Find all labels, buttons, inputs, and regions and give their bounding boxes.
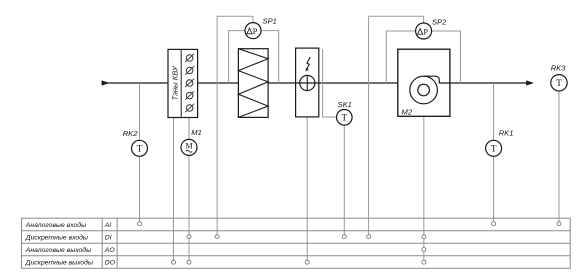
wire: SP2 signal line to DI — [368, 16, 370, 237]
wire: SK1 signal line to DI — [343, 117, 345, 236]
wire: fan M2 signal line to DI AO DO — [423, 116, 425, 262]
sensor RK2 circle — [132, 140, 148, 156]
sensor RK3 circle — [551, 75, 567, 91]
wire: SP1 left pressure tap — [229, 31, 246, 83]
heater block E1 divider — [180, 49, 182, 117]
svg-text:Дискретные выходы: Дискретные выходы — [25, 259, 93, 267]
right flow arrow — [526, 80, 534, 85]
node: RK1 to AI — [492, 222, 496, 226]
wire: SP2 drop to circle — [423, 16, 425, 23]
svg-text:SP2: SP2 — [432, 17, 447, 26]
wire: SP1 right pressure tap — [260, 31, 279, 83]
wire: supply duct main line segment 2 — [268, 82, 398, 84]
wire: SP2 right pressure tap — [431, 31, 461, 83]
svg-text:P: P — [253, 27, 258, 36]
fan M2 scroll tangent outlet — [424, 76, 450, 83]
wire: SP1 signal line to DI — [216, 16, 218, 237]
wire: RK3 sensor drop to AI — [558, 83, 560, 224]
sensor RK1 circle — [486, 140, 502, 156]
svg-text:T: T — [137, 145, 143, 155]
node: M2 to DO — [422, 260, 426, 264]
svg-text:M2: M2 — [402, 107, 413, 116]
svg-text:DO: DO — [105, 260, 116, 267]
node: M1 to DO — [187, 260, 191, 264]
svg-text:RK3: RK3 — [551, 63, 567, 72]
node: heater E1 to DO — [172, 260, 176, 264]
wire: SP1 drop to circle — [252, 16, 254, 23]
thermostat SK1 circle — [337, 110, 353, 126]
heating element symbol 4 — [185, 91, 194, 99]
wire: supply duct main line segment 1 — [102, 82, 238, 84]
svg-text:RK2: RK2 — [123, 129, 139, 138]
electric heater E2 body — [296, 48, 319, 117]
filter F1 zigzag — [238, 49, 268, 118]
svg-text:AO: AO — [104, 247, 116, 254]
heating element symbol 2 — [185, 66, 194, 74]
node: M2 to DI — [422, 235, 426, 239]
heating element symbol 1 — [185, 54, 194, 62]
svg-text:T: T — [491, 145, 497, 155]
fan M2 hub inner circle — [418, 84, 430, 96]
svg-text:RK1: RK1 — [499, 128, 514, 137]
filter F1 body — [238, 49, 268, 118]
left flow arrow — [102, 80, 110, 85]
svg-text:AI: AI — [104, 222, 112, 229]
node: RK2 to AI — [138, 222, 142, 226]
wire: SP2 top run — [369, 15, 424, 17]
heating element symbol 5 — [185, 104, 194, 112]
heating element symbol 3 — [185, 79, 194, 87]
node: SP1 to DI — [215, 235, 219, 239]
svg-text:T: T — [341, 114, 347, 124]
heater block E1 Тэны КВУ body — [168, 49, 198, 117]
wire: heater E1 left stub to DO — [173, 118, 175, 263]
motor M1 circle — [181, 139, 197, 155]
sensor SP1 circle — [245, 23, 261, 39]
wire: SP1 top run — [217, 15, 253, 17]
wire: RK2 sensor drop to AI — [139, 83, 141, 224]
wire: SK1 capillary sensing line — [323, 50, 340, 118]
svg-text:SP1: SP1 — [263, 16, 277, 25]
wire: main line through E2 — [296, 82, 319, 84]
fan M2 body — [398, 49, 450, 116]
wire: electric heater E2 stub to DO — [306, 117, 308, 262]
wire: SP2 left pressure tap — [386, 31, 416, 83]
svg-text:Аналоговые входы: Аналоговые входы — [25, 221, 86, 229]
wire: supply duct main line segment 3 — [450, 82, 528, 84]
svg-text:DI: DI — [105, 235, 112, 242]
node: RK3 to AI — [557, 222, 561, 226]
node: SK1 to DI — [342, 235, 346, 239]
wire: RK1 sensor drop to AI — [493, 83, 495, 224]
fan M2 scroll outer circle — [410, 76, 438, 104]
electric heater E2 circle-cross symbol — [300, 75, 315, 90]
svg-text:M: M — [185, 142, 192, 151]
node: M2 to AO — [422, 248, 426, 252]
svg-text:Дискретные входы: Дискретные входы — [25, 234, 88, 242]
sensor SP2 circle — [416, 23, 432, 39]
svg-text:M1: M1 — [191, 128, 202, 137]
electric heater E2 lightning symbol — [307, 57, 310, 68]
node: heater E2 to DO — [305, 260, 309, 264]
svg-text:Аналоговые выходы: Аналоговые выходы — [25, 246, 91, 254]
node: SP2 to DI — [367, 235, 371, 239]
svg-text:SK1: SK1 — [338, 100, 352, 109]
node: M1 to DI — [187, 235, 191, 239]
svg-text:T: T — [556, 79, 562, 89]
svg-text:P: P — [423, 27, 428, 36]
wire: heater E1 right stub through M1 to DI and DO — [188, 118, 190, 263]
I/O table frame — [22, 218, 571, 268]
svg-text:Тэны КВУ: Тэны КВУ — [171, 65, 180, 100]
